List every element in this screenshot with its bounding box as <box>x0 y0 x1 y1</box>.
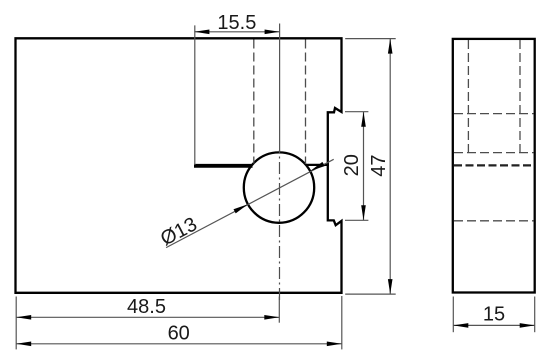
svg-text:15: 15 <box>483 303 505 325</box>
dimension 20 extension line bottom <box>345 219 368 221</box>
side view hidden line slot left <box>467 40 469 153</box>
svg-text:20: 20 <box>341 154 363 176</box>
diameter leader line <box>166 159 334 247</box>
side view hidden saw cut <box>454 164 534 166</box>
diameter arrow lower-left <box>234 204 248 213</box>
dimension 60 line <box>16 343 342 345</box>
dimension 15.5 arrow left <box>194 30 209 35</box>
side view hidden line hole bottom <box>454 220 534 222</box>
hole circle <box>244 152 314 222</box>
dimension 60 arrow right <box>327 342 342 347</box>
side view outline <box>453 39 535 293</box>
center line vertical <box>279 150 281 301</box>
hidden line right (front view) <box>305 40 307 165</box>
diameter arrow upper-right <box>310 162 324 171</box>
saw cut line right <box>306 164 329 166</box>
svg-text:48.5: 48.5 <box>127 296 166 318</box>
dimension 15 arrow right <box>520 323 535 328</box>
side view hidden line hole top <box>454 152 534 154</box>
saw cut line left <box>194 164 253 168</box>
dimension 48.5 extension line right <box>278 297 280 323</box>
dimension 47 extension line top <box>345 38 396 40</box>
dimension 47 arrow bottom <box>388 279 393 294</box>
dimension 15.5 extension line left <box>194 25 196 165</box>
dimension 20 line <box>363 112 365 221</box>
dimension 48.5 line <box>16 316 279 318</box>
dimension 60 extension line right <box>341 296 343 349</box>
dimension 47 extension line bottom <box>345 293 396 295</box>
svg-text:15.5: 15.5 <box>217 12 256 34</box>
dimension 48.5 extension line left <box>15 297 17 350</box>
svg-text:60: 60 <box>168 323 190 345</box>
dimension 15 arrow left <box>453 323 468 328</box>
dimension 15 line <box>453 324 534 326</box>
dimension 47 line <box>389 39 391 295</box>
side view hidden line slot right <box>519 40 521 153</box>
dimension 60 arrow left <box>16 342 31 347</box>
dimension 20 arrow top <box>361 112 366 127</box>
dimension 15.5 extension line right <box>279 24 281 152</box>
dimension 47 arrow top <box>388 39 393 54</box>
dimension 48.5 arrow left <box>16 315 31 320</box>
dimension 20 arrow bottom <box>361 205 366 220</box>
dimension 15 extension line right <box>534 297 536 333</box>
dimension 15.5 line <box>194 31 279 33</box>
front view outline <box>16 38 342 292</box>
dimension 48.5 arrow right <box>264 315 279 320</box>
dimension 20 extension line top <box>345 111 368 113</box>
svg-text:47: 47 <box>368 154 390 176</box>
dimension 15 extension line left <box>452 297 454 333</box>
hidden line left (front view) <box>253 40 255 164</box>
side view hidden line notch top <box>454 113 534 115</box>
dimension 15.5 arrow right <box>265 30 280 35</box>
